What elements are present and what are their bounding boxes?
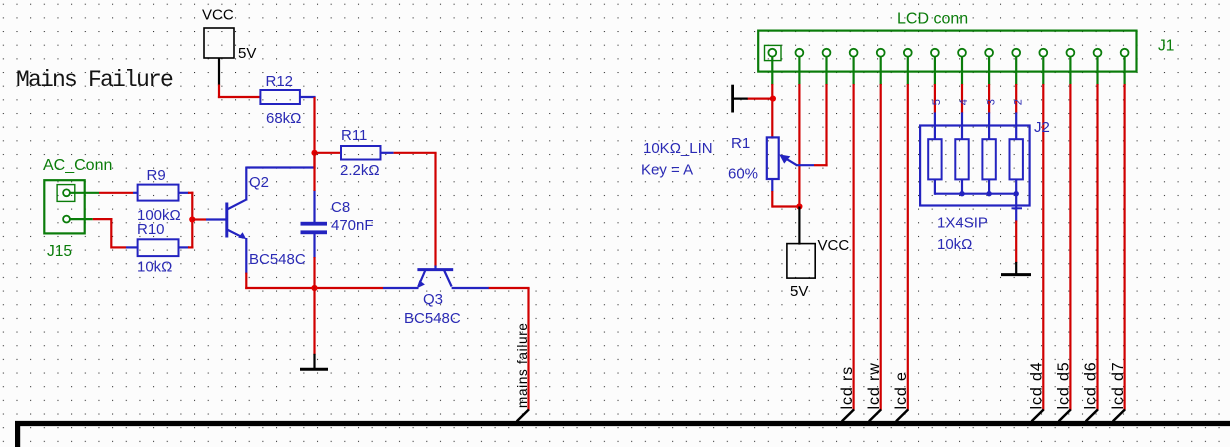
svg-text:Key = A: Key = A <box>641 162 693 179</box>
svg-text:5V: 5V <box>790 283 808 300</box>
svg-text:470nF: 470nF <box>331 217 374 234</box>
svg-text:Mains Failure: Mains Failure <box>16 67 173 93</box>
svg-text:J1: J1 <box>1158 38 1174 55</box>
svg-text:10kΩ: 10kΩ <box>937 236 972 253</box>
svg-text:R10: R10 <box>137 221 165 238</box>
svg-text:lcd rs: lcd rs <box>839 366 856 410</box>
svg-text:68kΩ: 68kΩ <box>266 110 301 127</box>
svg-text:BC548C: BC548C <box>404 310 461 327</box>
svg-text:R1: R1 <box>731 135 750 152</box>
svg-text:lcd d6: lcd d6 <box>1083 361 1100 409</box>
svg-text:Q2: Q2 <box>249 174 269 191</box>
svg-text:Q3: Q3 <box>423 291 443 308</box>
svg-text:lcd e: lcd e <box>893 371 910 409</box>
svg-text:C8: C8 <box>331 199 350 216</box>
svg-text:LCD conn: LCD conn <box>897 11 968 28</box>
svg-text:5: 5 <box>931 99 943 105</box>
svg-text:5V: 5V <box>238 45 256 62</box>
svg-text:1X4SIP: 1X4SIP <box>937 215 988 232</box>
svg-text:2: 2 <box>1012 99 1024 105</box>
svg-text:R9: R9 <box>147 167 166 184</box>
svg-text:R12: R12 <box>266 73 294 90</box>
svg-text:2.2kΩ: 2.2kΩ <box>340 162 380 179</box>
svg-text:lcd d5: lcd d5 <box>1056 361 1073 409</box>
svg-text:VCC: VCC <box>818 237 850 254</box>
svg-text:lcd rw: lcd rw <box>866 362 883 409</box>
svg-text:J2: J2 <box>1034 119 1050 136</box>
svg-text:AC_Conn: AC_Conn <box>43 157 112 174</box>
svg-text:mains failure: mains failure <box>515 322 530 408</box>
svg-text:60%: 60% <box>728 166 758 183</box>
svg-text:BC548C: BC548C <box>249 251 306 268</box>
svg-text:lcd d4: lcd d4 <box>1029 361 1046 409</box>
svg-text:VCC: VCC <box>202 7 234 24</box>
svg-text:lcd d7: lcd d7 <box>1110 361 1127 409</box>
svg-text:3: 3 <box>985 99 997 105</box>
svg-text:10KΩ_LIN: 10KΩ_LIN <box>643 140 713 157</box>
svg-text:4: 4 <box>958 99 970 105</box>
svg-text:10kΩ: 10kΩ <box>137 259 172 276</box>
svg-text:J15: J15 <box>47 243 72 260</box>
svg-text:R11: R11 <box>341 127 367 144</box>
